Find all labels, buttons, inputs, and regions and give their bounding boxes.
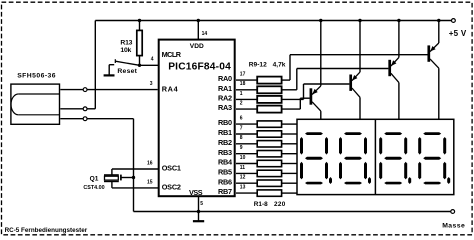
svg-text:+5 V: +5 V	[449, 29, 467, 38]
svg-text:17: 17	[240, 72, 246, 78]
svg-text:VDD: VDD	[190, 43, 204, 50]
svg-text:2: 2	[240, 101, 243, 107]
svg-text:11: 11	[240, 165, 246, 171]
svg-text:Reset: Reset	[117, 68, 137, 75]
svg-text:18: 18	[240, 81, 246, 87]
svg-text:Q1: Q1	[90, 175, 99, 182]
svg-text:RA2: RA2	[218, 94, 232, 103]
svg-text:10k: 10k	[120, 47, 131, 54]
svg-text:RA3: RA3	[218, 103, 232, 112]
svg-text:R1-8: R1-8	[254, 201, 268, 208]
svg-text:RB1: RB1	[218, 128, 232, 137]
svg-text:CST4.00: CST4.00	[83, 185, 104, 191]
svg-text:R9-12: R9-12	[249, 61, 267, 68]
svg-text:3: 3	[150, 81, 153, 87]
svg-text:RA1: RA1	[218, 84, 232, 93]
svg-text:VSS: VSS	[189, 188, 203, 197]
svg-text:OSC1: OSC1	[162, 164, 181, 173]
svg-text:R13: R13	[120, 39, 132, 46]
svg-text:1: 1	[240, 91, 243, 97]
svg-text:RB6: RB6	[218, 177, 232, 186]
svg-text:4: 4	[151, 57, 154, 63]
svg-text:13: 13	[240, 185, 246, 191]
svg-text:RB7: RB7	[218, 187, 232, 196]
svg-text:RA4: RA4	[162, 84, 179, 93]
svg-text:8: 8	[240, 135, 243, 141]
svg-text:4,7k: 4,7k	[273, 61, 286, 68]
svg-text:OSC2: OSC2	[162, 182, 181, 191]
svg-text:220: 220	[274, 201, 286, 208]
svg-text:14: 14	[202, 31, 208, 37]
svg-text:9: 9	[240, 145, 243, 151]
svg-text:RB5: RB5	[218, 168, 232, 177]
svg-text:10: 10	[240, 155, 246, 161]
svg-text:16: 16	[147, 160, 153, 166]
svg-text:Masse: Masse	[442, 222, 465, 229]
svg-text:5: 5	[200, 201, 203, 207]
svg-text:RB0: RB0	[218, 118, 232, 127]
svg-text:RC-5 Fernbedienungstester: RC-5 Fernbedienungstester	[5, 227, 88, 234]
svg-text:12: 12	[240, 175, 246, 181]
svg-text:RB3: RB3	[218, 148, 232, 157]
svg-text:SFH506-36: SFH506-36	[17, 72, 56, 79]
svg-text:RA0: RA0	[218, 74, 232, 83]
svg-text:MCLR: MCLR	[162, 50, 182, 59]
svg-text:6: 6	[240, 116, 243, 122]
svg-text:PIC16F84-04: PIC16F84-04	[168, 62, 231, 73]
svg-text:RB2: RB2	[218, 138, 232, 147]
svg-text:15: 15	[147, 179, 153, 185]
svg-text:RB4: RB4	[218, 158, 233, 167]
svg-text:7: 7	[240, 125, 243, 131]
